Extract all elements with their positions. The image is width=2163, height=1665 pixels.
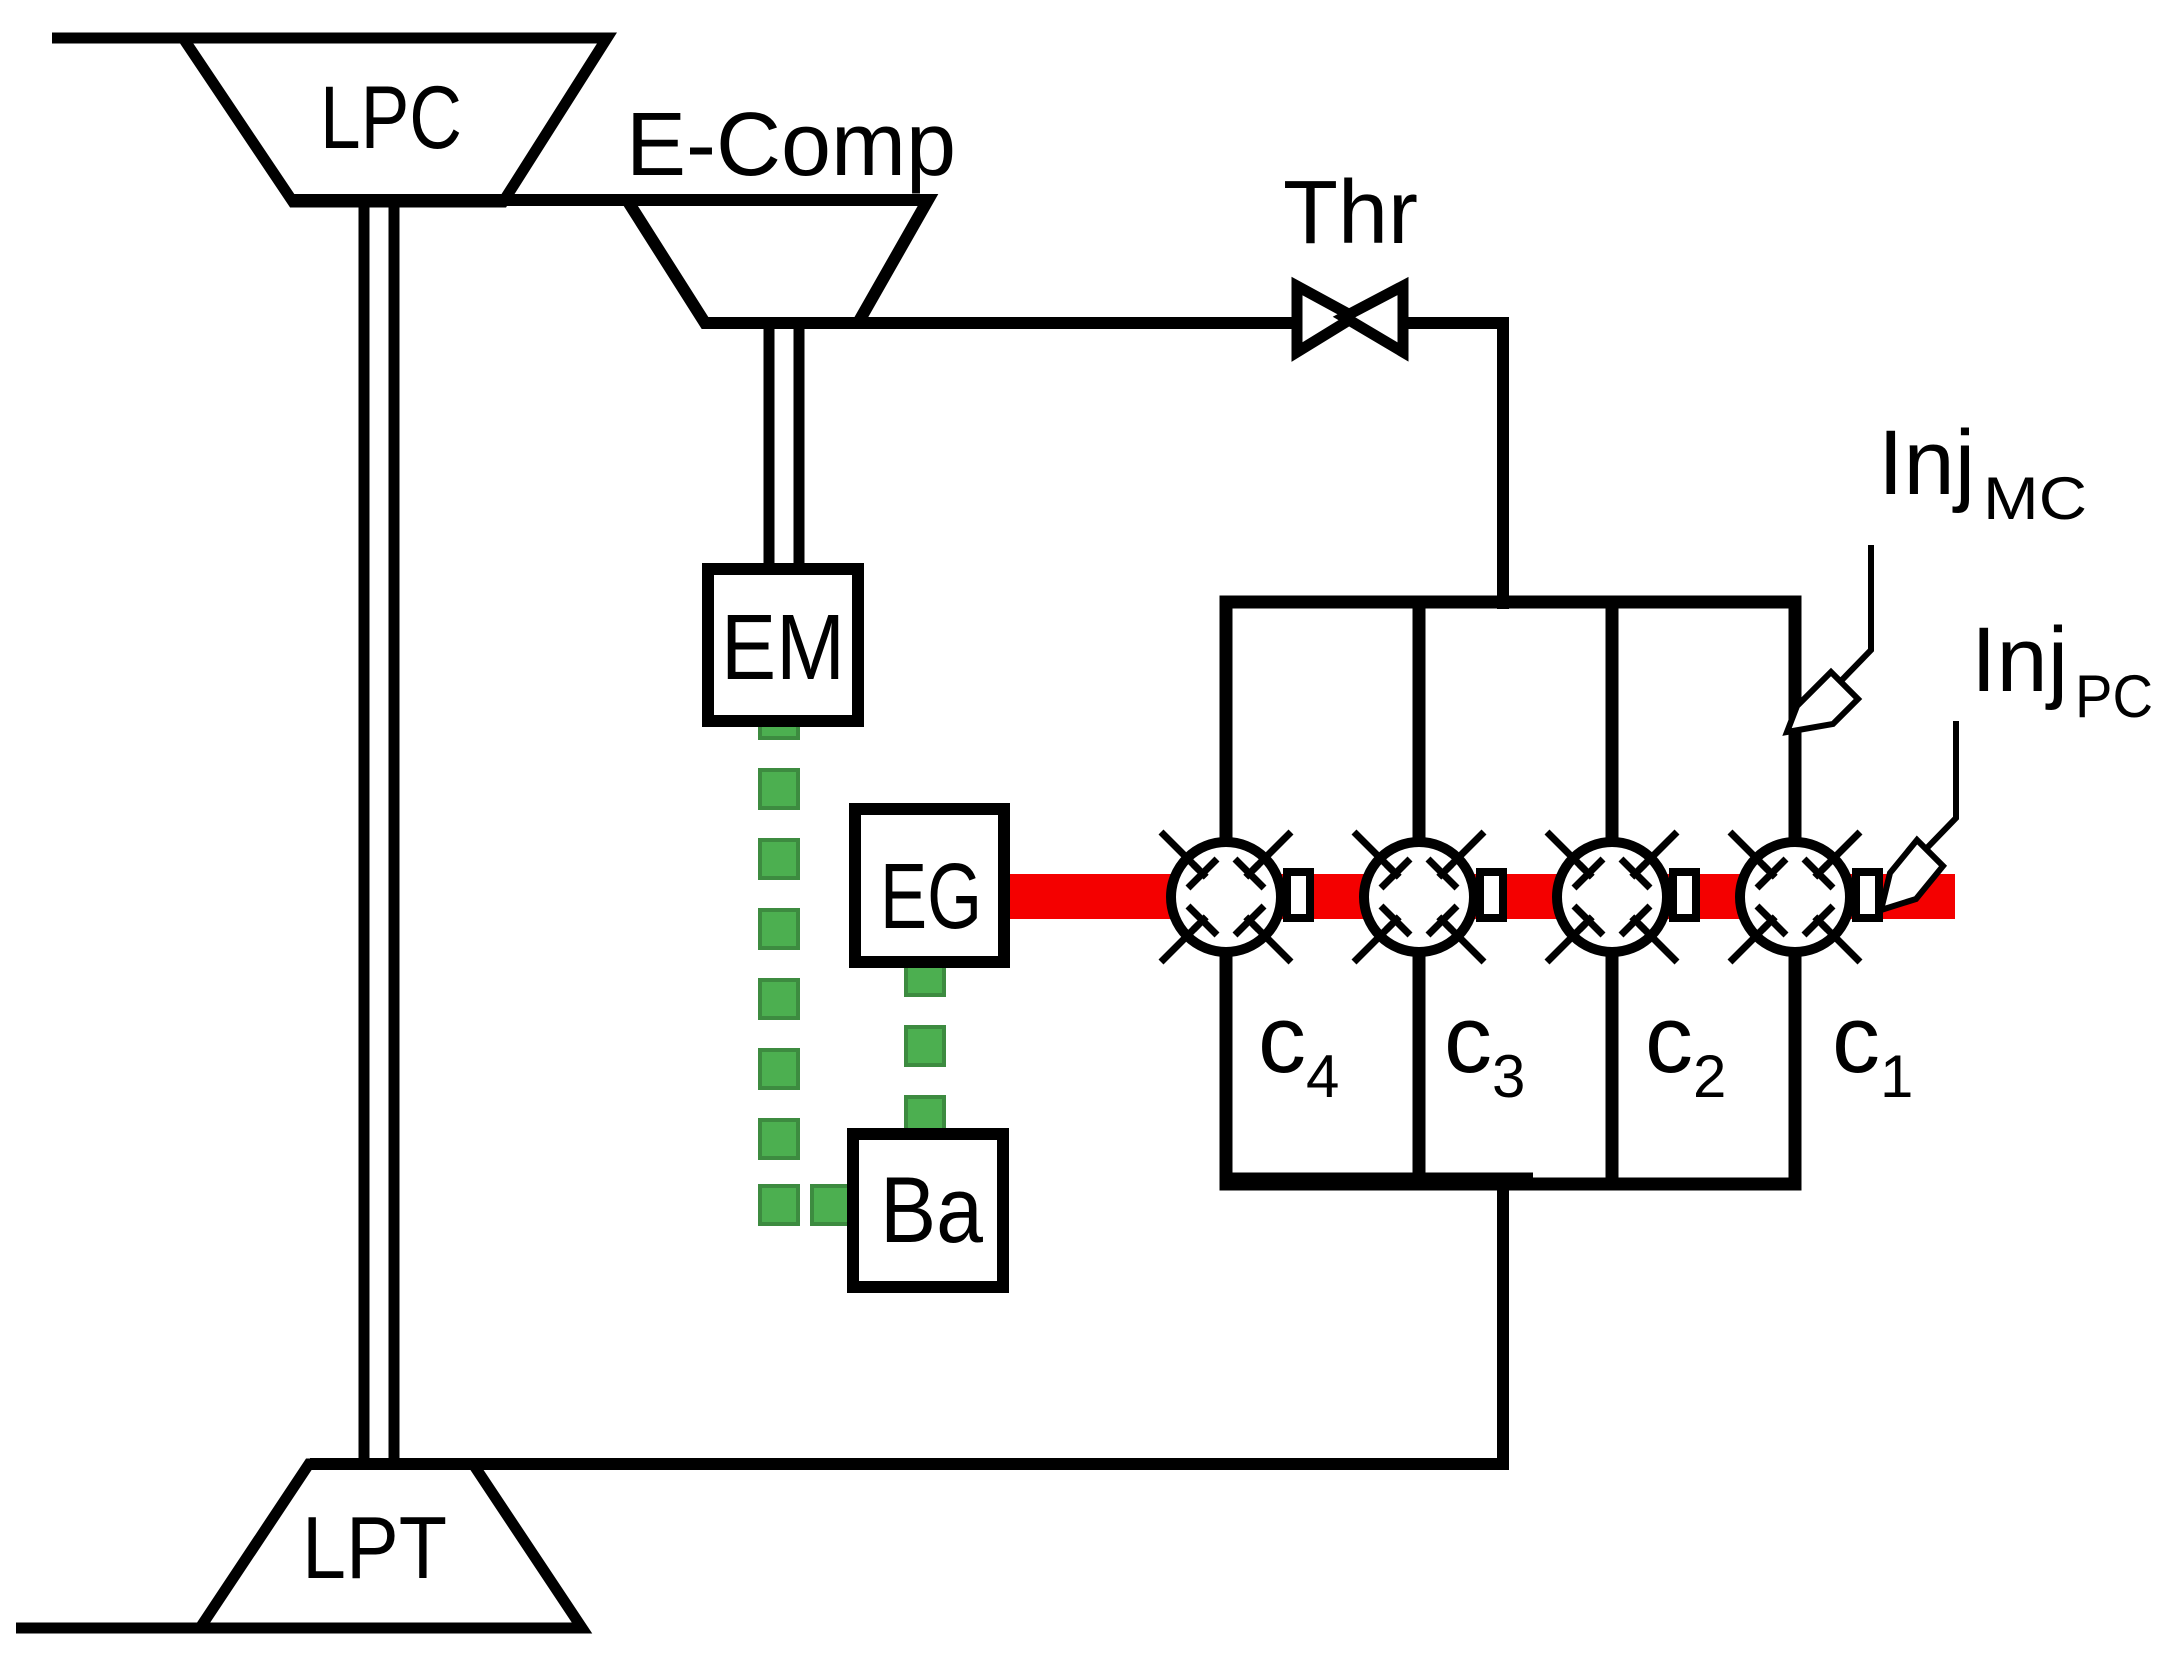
compressor LPC — [183, 38, 607, 202]
svg-text:3: 3 — [1492, 1043, 1525, 1110]
crank circle c2 — [1547, 832, 1677, 962]
exhaust duct engine to LPT — [310, 1184, 1503, 1464]
battery Ba — [853, 1134, 1003, 1287]
crankshaft red line — [1005, 874, 1955, 919]
svg-text:1: 1 — [1880, 1043, 1913, 1110]
injector InjPC needle — [1881, 840, 1943, 910]
green power dashes EG to Ba — [906, 957, 944, 1135]
engine block — [1226, 602, 1795, 1184]
svg-text:LPT: LPT — [302, 1498, 447, 1597]
engine block bottom edge overlap segment — [1232, 1173, 1533, 1184]
injector InjMC needle — [1787, 672, 1858, 732]
svg-text:EM: EM — [721, 595, 845, 699]
svg-text:PC: PC — [2075, 663, 2153, 730]
shaft E-Comp to EM — [769, 323, 799, 570]
shaft LPC-LPT — [364, 202, 394, 1461]
cylinder divider c3/c2 — [1606, 598, 1619, 1184]
svg-text:2: 2 — [1693, 1043, 1726, 1110]
svg-text:Ba: Ba — [880, 1157, 984, 1262]
duct LPC to E-Comp — [291, 194, 928, 206]
generator EG — [855, 809, 1004, 962]
svg-text:c: c — [1645, 986, 1693, 1093]
svg-text:Thr: Thr — [1283, 163, 1418, 263]
duct E-Comp to throttle — [705, 317, 1297, 329]
exhaust line out — [16, 1623, 200, 1634]
compressor E-Comp — [627, 200, 928, 323]
svg-text:Inj: Inj — [1878, 412, 1975, 514]
cylinder divider c4/c3 — [1413, 598, 1426, 1184]
green power dashes EM to Ba — [760, 700, 850, 1224]
svg-text:c: c — [1444, 986, 1492, 1093]
crank circle c4 — [1161, 832, 1291, 962]
svg-text:4: 4 — [1306, 1043, 1339, 1110]
electric machine EM — [708, 569, 858, 721]
crank circle c3 — [1354, 832, 1484, 962]
throttle valve Thr — [1297, 286, 1403, 352]
svg-text:c: c — [1258, 986, 1306, 1093]
svg-text:Inj: Inj — [1971, 609, 2068, 711]
svg-text:c: c — [1832, 986, 1880, 1093]
injector InjPC pointer — [1925, 721, 1956, 850]
svg-text:E-Comp: E-Comp — [626, 95, 956, 195]
svg-text:MC: MC — [1983, 465, 2087, 532]
turbine LPT — [200, 1464, 582, 1628]
injector InjMC pointer — [1838, 545, 1871, 684]
intake line to LPC — [52, 33, 610, 44]
svg-text:LPC: LPC — [320, 67, 462, 167]
crank journal boxes — [1287, 872, 1879, 918]
duct throttle to intake manifold — [1406, 323, 1503, 609]
crank circle c1 — [1730, 832, 1860, 962]
svg-text:EG: EG — [880, 844, 982, 948]
